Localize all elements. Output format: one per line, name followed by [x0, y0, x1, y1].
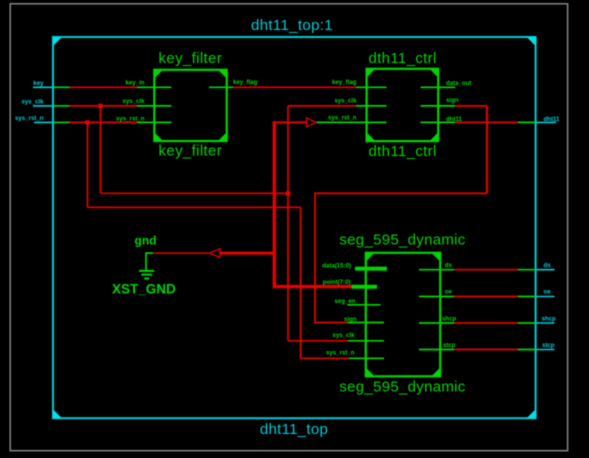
svg-text:dth11_ctrl: dth11_ctrl: [368, 143, 436, 160]
input port key: green segment: [54, 86, 70, 88]
output port stcp cyan stub: [536, 349, 555, 351]
svg-text:dht11_top: dht11_top: [260, 421, 328, 438]
svg-text:stcp: stcp: [542, 342, 555, 349]
svg-text:sys_clk: sys_clk: [334, 98, 357, 105]
svg-text:stcp: stcp: [443, 342, 456, 349]
svg-text:sys_rst_n: sys_rst_n: [328, 115, 357, 122]
svg-text:point(7:0): point(7:0): [323, 279, 351, 286]
svg-text:dth11_ctrl: dth11_ctrl: [368, 50, 436, 67]
svg-text:oe: oe: [544, 289, 552, 296]
svg-text:sys_rst_n: sys_rst_n: [326, 350, 355, 357]
svg-text:key_in: key_in: [126, 80, 145, 87]
block key_filter: [154, 70, 226, 141]
wire ds green segment: [518, 269, 536, 271]
svg-text:sys_clk: sys_clk: [332, 332, 355, 339]
svg-text:ds: ds: [445, 262, 453, 269]
junction sys_clk: [98, 104, 102, 108]
pin stub key_filter key_flag: [209, 86, 233, 88]
wire sys_rst_n down to seg: [300, 207, 302, 358]
svg-text:oe: oe: [445, 289, 453, 296]
svg-text:seg_en: seg_en: [334, 298, 355, 305]
output port ds cyan stub: [536, 269, 555, 271]
pin stub key_in: [137, 86, 172, 88]
thick wire to point port: [273, 285, 352, 288]
arrow on gnd wire: [210, 249, 221, 258]
svg-text:sys_rst_n: sys_rst_n: [116, 115, 145, 122]
block seg_595_dynamic: [366, 253, 440, 376]
svg-text:dht11: dht11: [544, 116, 561, 123]
svg-text:data(15:0): data(15:0): [322, 263, 351, 270]
svg-text:ds: ds: [544, 262, 552, 269]
pin stub dth11 key_flag: [356, 86, 387, 88]
output port dht11 cyan stub: [536, 121, 557, 123]
wire oe green segment: [518, 296, 536, 298]
pin stub seg shcp: [419, 322, 454, 324]
wire sys_clk horizontal run: [101, 192, 289, 194]
svg-text:shcp: shcp: [542, 316, 557, 323]
pin stub dth11 data_out: [421, 86, 456, 88]
svg-text:sys_rst_n: sys_rst_n: [15, 115, 44, 122]
wire dht11 green segment: [518, 121, 536, 123]
gnd symbol elbow: [146, 253, 153, 271]
ground bars: [139, 270, 154, 272]
pin stub seg ds: [419, 269, 454, 271]
pin stub seg sys_clk: [348, 340, 384, 342]
svg-text:seg_595_dynamic: seg_595_dynamic: [339, 231, 465, 248]
wire shcp green segment: [518, 322, 536, 324]
pin stub key_filter sys_rst_n: [137, 121, 172, 123]
pin stub seg oe: [419, 296, 454, 298]
output port shcp cyan stub: [536, 322, 555, 324]
wire gnd thick: [220, 252, 276, 255]
buffer arrow on dth11 sys_rst_n: [307, 118, 316, 127]
wire sys_clk to seg port: [288, 340, 348, 342]
pin stub seg seg_en: [348, 304, 381, 306]
input port sys_rst_n: green segment: [54, 121, 70, 123]
svg-text:shcp: shcp: [442, 316, 457, 323]
wire sys_clk to key_filter: [70, 105, 138, 107]
svg-text:sign: sign: [344, 316, 357, 323]
wire stcp net: [454, 349, 518, 351]
wire key net: [70, 86, 138, 88]
wire sys_clk vertical drop: [100, 106, 102, 193]
input port key: cyan stub: [33, 86, 54, 88]
svg-text:key: key: [33, 80, 44, 87]
wire oe net: [454, 296, 518, 298]
pin stub key_filter sys_clk: [137, 105, 172, 107]
thick wire gnd/point vertical: [273, 121, 276, 286]
wire gnd thin: [153, 252, 210, 254]
seg data bus stub: [355, 267, 387, 271]
wire shcp net: [454, 322, 518, 324]
wire sys_rst_n to seg port: [301, 357, 349, 359]
wire dth11 sys_rst_n feed: [273, 121, 307, 123]
svg-text:data_out: data_out: [446, 80, 471, 87]
input port sys_rst_n: cyan stub: [34, 121, 54, 123]
input port sys_clk: green segment: [54, 105, 70, 107]
junction sys_clk mid: [286, 191, 291, 196]
wire dht11 net: [455, 121, 518, 123]
pin stub seg stcp: [419, 349, 454, 351]
wire sign net: [455, 105, 487, 107]
svg-text:sign: sign: [446, 97, 459, 104]
pin stub dth11 sys_clk: [356, 105, 387, 107]
svg-text:sys_clk: sys_clk: [122, 98, 145, 105]
wire sys_clk riser to dth11 and down to seg: [287, 106, 289, 341]
pin stub dth11 dht11: [421, 121, 456, 123]
pin stub dth11 sign: [421, 105, 456, 107]
svg-text:key_flag: key_flag: [233, 79, 258, 86]
wire ds net: [454, 269, 518, 271]
pin stub seg sys_rst_n: [349, 357, 384, 359]
pin stub seg sign: [348, 322, 385, 324]
output port oe cyan stub: [536, 296, 555, 298]
sheet border (cyan): [53, 37, 536, 418]
pin stub dth11 sys_rst_n: [317, 121, 387, 123]
wire sys_clk to dth11 port: [288, 105, 356, 107]
wire sys_rst_n horizontal run: [88, 206, 301, 208]
block dth11_ctrl: [367, 69, 439, 141]
svg-text:seg_595_dynamic: seg_595_dynamic: [339, 378, 465, 395]
svg-text:XST_GND: XST_GND: [112, 281, 176, 296]
input port sys_clk: cyan stub: [33, 105, 54, 107]
junction sys_rst_n: [85, 120, 89, 124]
svg-text:key_flag: key_flag: [332, 79, 357, 86]
svg-text:key_filter: key_filter: [159, 142, 223, 159]
wire stcp green segment: [518, 349, 536, 351]
wire sys_rst_n vertical drop: [87, 122, 89, 207]
wire key_flag net: [233, 86, 356, 88]
seg point bus stub: [352, 285, 378, 289]
svg-text:sys_clk: sys_clk: [21, 99, 44, 106]
svg-text:gnd: gnd: [135, 234, 157, 248]
wire sys_rst_n to key_filter: [70, 121, 138, 123]
svg-text:dht11_top:1: dht11_top:1: [251, 17, 333, 34]
svg-text:key_filter: key_filter: [159, 50, 223, 67]
